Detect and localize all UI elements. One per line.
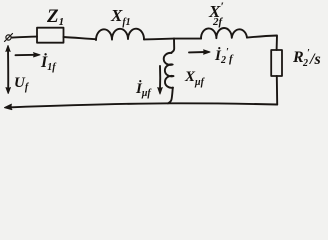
wire (Xf1 to node A) xyxy=(144,38,174,41)
wire (node A to X'2f coil) xyxy=(174,38,201,40)
voltage arrow Uf (double-headed, left side) xyxy=(6,46,10,94)
wire (R box to bottom right corner) xyxy=(276,76,278,105)
current arrow I1f xyxy=(16,53,41,57)
wire (bottom return wire with left arrowhead) xyxy=(5,103,278,109)
impedance Z1 xyxy=(37,28,64,43)
svg-text:2f: 2f xyxy=(212,16,224,28)
svg-text:2: 2 xyxy=(302,58,308,69)
label I'2f xyxy=(214,47,234,66)
inductor Xmu (magnetizing branch) xyxy=(164,53,174,88)
current arrow I'2f xyxy=(189,50,210,54)
wire (X'2f coil to top right corner, down to R box) xyxy=(247,36,277,51)
wire (Xmu coil to bottom wire) xyxy=(168,88,173,104)
svg-text:/s: /s xyxy=(309,51,321,68)
label X'2f xyxy=(208,0,224,28)
resistor R'2/s xyxy=(271,50,282,76)
node A (junction of magnetizing branch) xyxy=(171,39,174,53)
inductor X'2f xyxy=(201,28,247,39)
terminal node (input, circle with slash) xyxy=(5,34,13,42)
wire (terminal to Z1 box) xyxy=(12,37,37,38)
svg-text:′: ′ xyxy=(221,0,224,13)
inductor Xf1 xyxy=(96,29,144,40)
wire (Z1 to Xf1 coil) xyxy=(64,37,97,39)
current arrow Imu xyxy=(158,66,162,94)
label R'2/s xyxy=(292,48,321,69)
